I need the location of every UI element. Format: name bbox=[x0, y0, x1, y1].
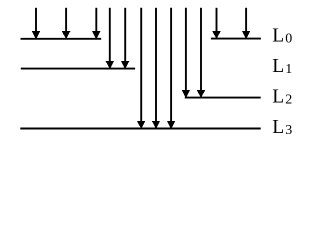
arrow 7 to L3 bbox=[152, 8, 160, 129]
arrow 8 to L3 bbox=[167, 8, 175, 129]
svg-text:L0: L0 bbox=[272, 26, 292, 47]
arrow 9 to L2 bbox=[182, 8, 190, 98]
svg-text:L2: L2 bbox=[272, 87, 292, 108]
level line L2 bbox=[185, 97, 261, 99]
level line L3 bbox=[20, 128, 260, 130]
arrow 1 to L0 bbox=[32, 8, 40, 40]
arrow 5 to L1 bbox=[121, 8, 129, 69]
level line L0 right segment bbox=[211, 38, 261, 40]
arrow 12 to L0 bbox=[242, 8, 250, 39]
arrow 11 to L0 bbox=[212, 8, 220, 39]
arrow 10 to L2 bbox=[197, 8, 205, 98]
svg-text:L1: L1 bbox=[272, 56, 292, 77]
arrow 4 to L1 bbox=[106, 8, 114, 69]
svg-text:L3: L3 bbox=[272, 117, 292, 138]
arrow 3 to L0 bbox=[92, 8, 100, 40]
level line L0 left segment bbox=[21, 38, 102, 40]
level line L1 bbox=[21, 68, 135, 70]
arrow 6 to L3 bbox=[137, 8, 145, 129]
arrow 2 to L0 bbox=[62, 8, 70, 40]
